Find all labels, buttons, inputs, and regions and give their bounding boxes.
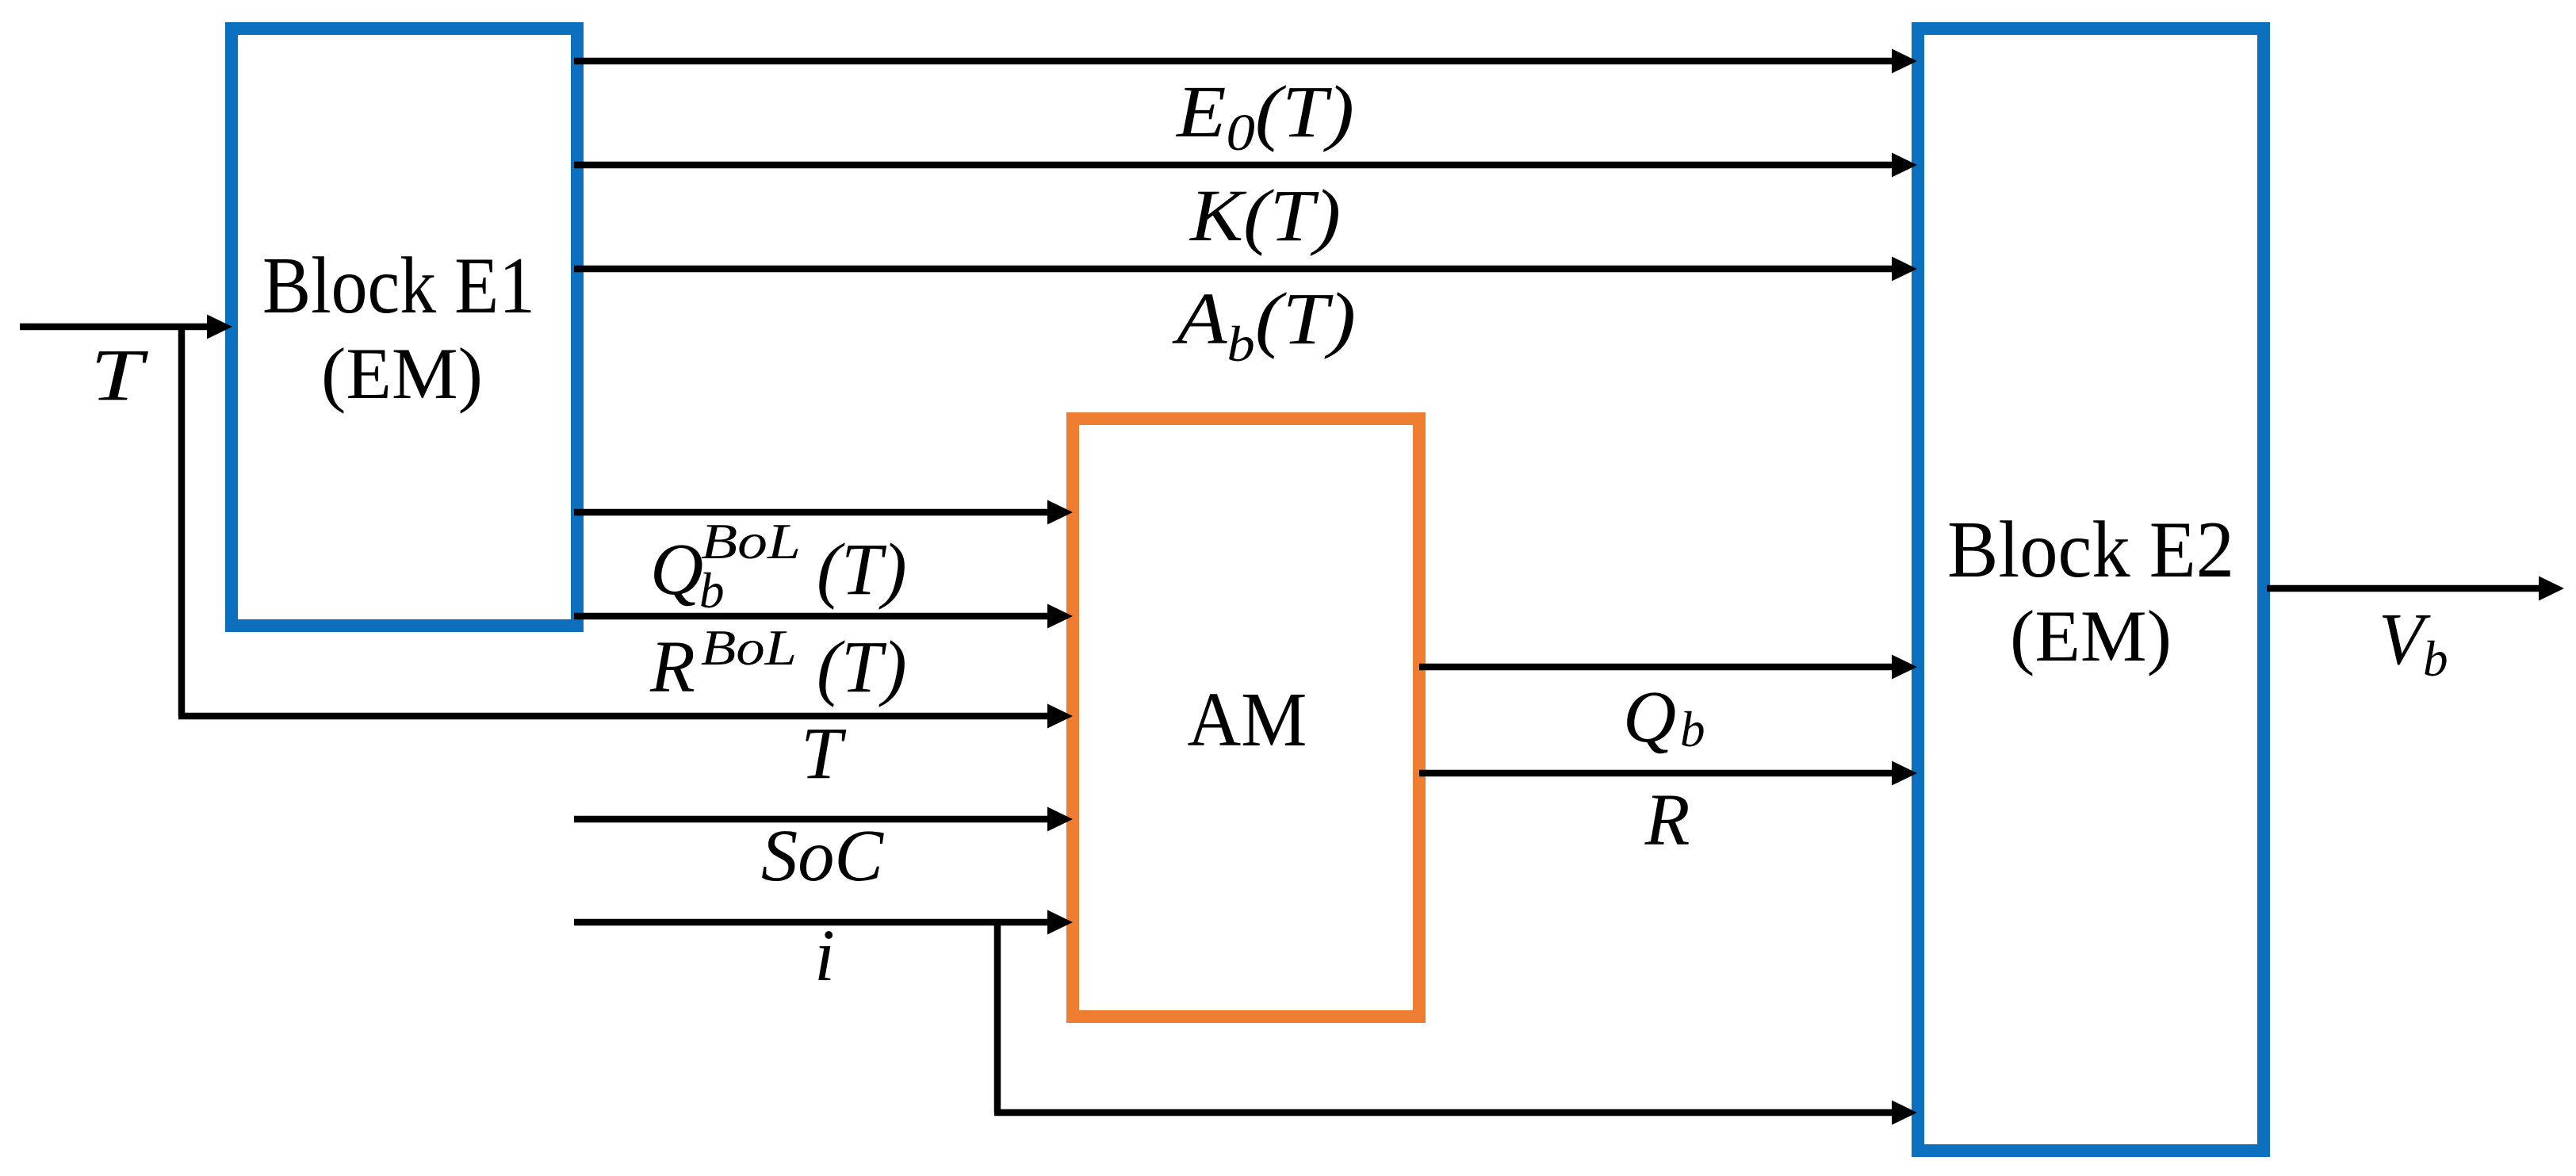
wire i branch bottom horizontal to E2	[994, 1109, 1893, 1117]
wire K(T) line 3	[574, 266, 1893, 273]
svg-text:BoL: BoL	[701, 514, 801, 569]
svg-text:b: b	[699, 563, 725, 619]
arrowhead R	[1892, 761, 1917, 786]
arrowhead Vb	[2539, 577, 2564, 601]
Block E1 (EM) box	[232, 29, 577, 626]
svg-text:AM: AM	[1188, 677, 1307, 763]
wire E1 to E2 top line 1	[574, 58, 1893, 65]
arrowhead SoC	[1047, 807, 1073, 832]
wire R from AM to E2	[1419, 770, 1893, 777]
arrowhead Qb	[1892, 655, 1917, 680]
svg-text:i: i	[814, 915, 835, 997]
wire T branch vertical	[178, 327, 186, 716]
arrowhead T row	[1047, 704, 1073, 729]
block AM box	[1073, 419, 1419, 1017]
wire QbBoL(T) line into AM	[574, 509, 1050, 516]
svg-text:R: R	[1644, 780, 1690, 861]
Block E2 (EM) box	[1918, 29, 2264, 1151]
wire RBoL(T) line into AM	[574, 613, 1050, 620]
wire Vb output from E2	[2267, 585, 2540, 592]
wire Qb from AM to E2	[1419, 664, 1893, 671]
wire T input horizontal	[20, 324, 210, 331]
arrowhead RBoL	[1047, 604, 1073, 629]
arrowhead bottom into E2	[1892, 1101, 1917, 1125]
svg-text:Q: Q	[1623, 676, 1676, 758]
svg-text:BoL: BoL	[701, 620, 797, 676]
svg-text:Q: Q	[650, 529, 703, 611]
svg-text:T: T	[801, 713, 847, 795]
arrowhead T input	[207, 315, 232, 339]
svg-text:SoC: SoC	[761, 815, 884, 897]
arrowhead line 3	[1892, 257, 1917, 282]
svg-text:Block E2: Block E2	[1947, 505, 2234, 595]
svg-text:R: R	[649, 626, 695, 708]
wire i line into AM	[574, 919, 1050, 926]
arrowhead line 1	[1892, 49, 1917, 74]
svg-text:b: b	[2423, 631, 2448, 687]
svg-text:(T): (T)	[817, 529, 907, 611]
arrowhead line 2	[1892, 153, 1917, 178]
svg-text:(T): (T)	[817, 626, 907, 708]
svg-text:K(T): K(T)	[1188, 175, 1341, 257]
svg-text:(EM): (EM)	[321, 333, 483, 414]
wire SoC line into AM	[574, 816, 1050, 823]
svg-text:E0(T): E0(T)	[1175, 71, 1354, 162]
svg-text:T: T	[90, 335, 149, 416]
svg-text:(EM): (EM)	[2010, 596, 2172, 676]
arrowhead QbBoL	[1047, 500, 1073, 525]
svg-text:b: b	[1680, 702, 1705, 757]
svg-text:Ab(T): Ab(T)	[1171, 278, 1356, 372]
wire T line into AM	[178, 713, 1050, 720]
svg-text:Block E1: Block E1	[262, 241, 535, 331]
arrowhead i	[1047, 910, 1073, 935]
wire E0(T) line 2	[574, 162, 1893, 169]
wire i branch vertical	[994, 922, 1001, 1113]
